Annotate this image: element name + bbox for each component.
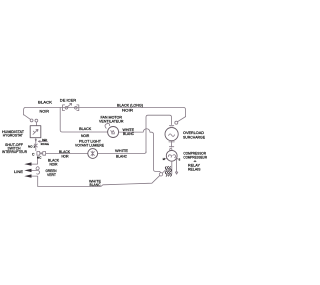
svg-text:NO 1: NO 1 (28, 145, 35, 149)
relay contact arm (162, 170, 166, 174)
svg-text:NOIR: NOIR (62, 153, 69, 158)
overload top terminal (169, 126, 173, 128)
de-icer terminal circles (65, 107, 68, 110)
fan motor start curl (105, 123, 110, 128)
de-icer arm (67, 103, 71, 107)
wire top black rail (24, 107, 186, 116)
fan motor internal (111, 130, 115, 133)
wire fan to white riser with hop (119, 129, 161, 173)
compressor circle (166, 150, 177, 161)
svg-text:NOIR: NOIR (40, 108, 50, 113)
connector C left half (37, 152, 41, 156)
svg-text:VOYANT LUMIERE: VOYANT LUMIERE (75, 143, 104, 148)
svg-text:RELAIS: RELAIS (188, 167, 201, 172)
wire compressor right terminal down (175, 159, 177, 174)
line arrow black (31, 157, 38, 164)
wire compressor bottom to relay coil (171, 161, 173, 174)
line arrow white (31, 176, 38, 186)
svg-text:S: S (179, 159, 181, 162)
compressor windings (168, 155, 175, 158)
relay contact circle (159, 173, 162, 176)
svg-text:LINE: LINE (14, 169, 23, 174)
de-icer bracket right (77, 105, 79, 111)
overload bottom terminal and link to compressor (169, 141, 174, 148)
svg-text:C: C (32, 152, 35, 156)
svg-text:ROUGE: ROUGE (41, 142, 49, 146)
svg-text:DE ICER: DE ICER (60, 98, 77, 103)
fan motor circle (108, 127, 119, 138)
svg-text:VENTILATEUR: VENTILATEUR (99, 119, 124, 124)
green wire coil (36, 167, 40, 175)
svg-text:VERT: VERT (47, 172, 57, 177)
wire humidistat to connector (red) (35, 138, 37, 151)
svg-text:BLANC: BLANC (90, 182, 101, 187)
svg-text:BLACK: BLACK (38, 99, 52, 104)
line arrow green (31, 169, 37, 171)
svg-text:M: M (163, 158, 165, 161)
humidistat internal arrow (33, 129, 38, 134)
wire into humidistat (35, 122, 37, 126)
pilot light filament (91, 151, 94, 156)
svg-text:NOIR: NOIR (50, 161, 58, 166)
wire fan feed drop (black) (60, 108, 107, 132)
de-icer bracket left (63, 105, 65, 111)
overload internal (169, 134, 175, 137)
wire overload top feed (white riser) (146, 115, 172, 153)
node switch terminal circle 2 (35, 119, 38, 122)
wire overload arm diagonal (178, 117, 186, 122)
svg-text:INTERRUPTEUR: INTERRUPTEUR (2, 149, 27, 154)
wire pilot left (black) (46, 153, 88, 155)
wire humidistat switch drop (24, 115, 31, 120)
relay coil (165, 166, 171, 176)
overload arm contact circle (175, 121, 178, 124)
compressor left terminal (165, 157, 167, 160)
svg-text:SURCHARGE: SURCHARGE (183, 135, 205, 140)
compressor top terminal circle (170, 148, 172, 150)
svg-text:BLANC: BLANC (116, 153, 127, 158)
svg-text:BLACK: BLACK (79, 126, 92, 131)
wire pilot right (white) (98, 152, 146, 154)
compressor right terminal (177, 158, 178, 159)
svg-text:NC: NC (37, 156, 42, 160)
svg-text:BLANC: BLANC (123, 131, 134, 136)
wire bottom white rail (38, 176, 160, 187)
overload circle (165, 128, 178, 141)
svg-text:HYGROSTAT: HYGROSTAT (3, 133, 24, 138)
crimp mark (34, 144, 37, 147)
pilot light circle (88, 149, 98, 159)
red wire arrowhead (35, 139, 37, 141)
humidistat box (30, 126, 41, 138)
node switch terminal circle 1 (30, 119, 33, 122)
connector C right half (42, 152, 46, 156)
svg-text:NOIR: NOIR (81, 133, 89, 138)
svg-text:NOIR: NOIR (122, 108, 133, 113)
svg-text:WHITE: WHITE (115, 148, 128, 153)
red wire pointer dash (38, 141, 47, 143)
